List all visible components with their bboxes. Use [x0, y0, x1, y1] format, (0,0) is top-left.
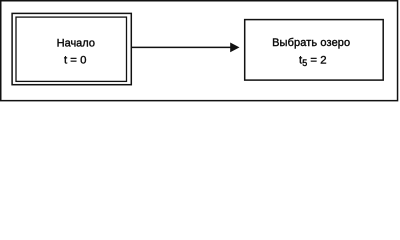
svg-text:t = 0: t = 0: [64, 55, 86, 67]
terminal block START: inner border: [16, 17, 127, 81]
svg-text:Начало: Начало: [57, 38, 95, 50]
wire: arrow shaft: [132, 46, 232, 48]
outer frame: [1, 1, 398, 101]
svg-text:Выбрать озеро: Выбрать озеро: [272, 37, 350, 49]
process block: border: [245, 20, 384, 81]
arrowhead: [230, 43, 239, 53]
terminal block START: outer border: [12, 13, 131, 84]
